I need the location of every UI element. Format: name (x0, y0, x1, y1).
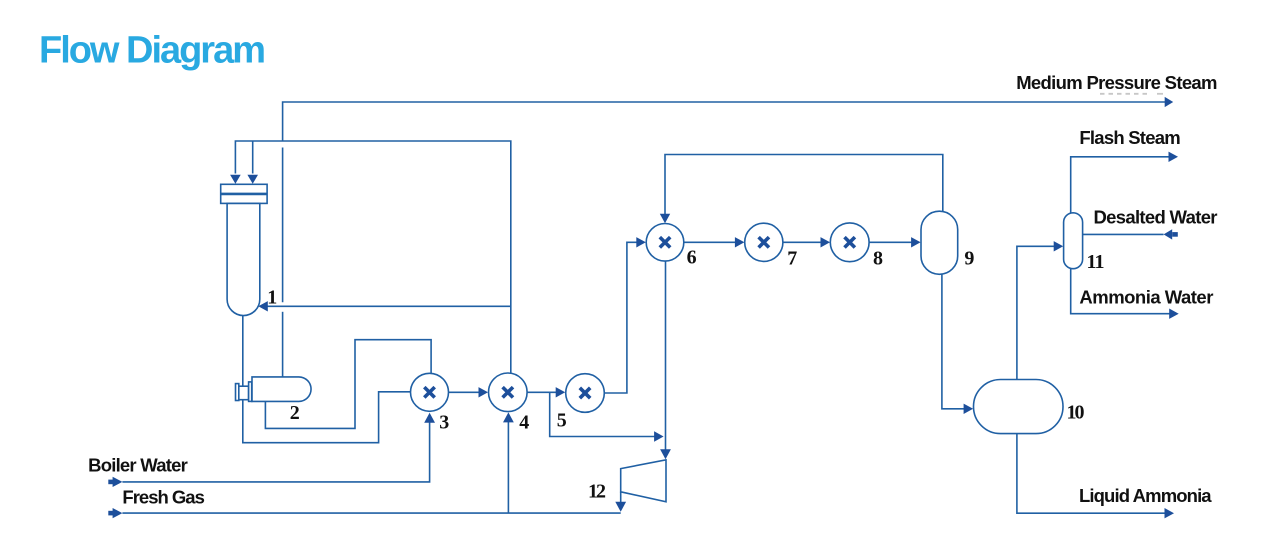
svg-text:2: 2 (290, 402, 300, 424)
arrowhead: into exchanger 5 left (556, 387, 566, 397)
exchanger E4 cross (503, 387, 513, 397)
arrowhead stub: fresh gas source (108, 511, 113, 516)
svg-text:3: 3 (439, 412, 449, 434)
svg-text:6: 6 (687, 247, 697, 269)
svg-text:11: 11 (1087, 251, 1105, 273)
wire: exchanger 6 bottom down to compressor 12 (665, 261, 667, 456)
svg-text:Medium Pressure Steam: Medium Pressure Steam (1016, 72, 1217, 93)
exchanger E3 cross (424, 387, 434, 397)
exchanger E5 cross (580, 388, 590, 398)
wire: vessel 11 bottom to ammonia water outlet (1071, 269, 1175, 314)
arrowhead: drop 1 into vessel 1 cap (230, 175, 241, 184)
arrowhead: drop 2 into vessel 1 cap (247, 175, 258, 184)
wire: vessel 10 top to vessel 11 left (1017, 246, 1060, 379)
vessel V2 nozzle flange (236, 384, 239, 401)
wire: exchanger 6 to exchanger 7 (684, 241, 741, 243)
svg-text:Desalted Water: Desalted Water (1094, 206, 1218, 227)
svg-text:8: 8 (873, 247, 883, 269)
svg-text:Flash Steam: Flash Steam (1079, 127, 1180, 148)
arrowhead: down into compressor 12 top (660, 449, 671, 459)
wire: boiler water line to exchanger 3 bottom (122, 417, 429, 482)
svg-text:12: 12 (588, 481, 606, 503)
svg-text:1: 1 (267, 287, 277, 309)
svg-text:10: 10 (1067, 401, 1085, 423)
arrowhead: boiler water into exchanger 3 bottom (424, 413, 435, 423)
vessel V1 cap divider (221, 193, 267, 196)
svg-text:4: 4 (519, 411, 529, 433)
svg-text:Fresh Gas: Fresh Gas (122, 487, 204, 508)
wire: exchanger 5 to exchanger 6 (604, 242, 642, 393)
arrowhead: flash steam outlet (1169, 152, 1179, 162)
wire: exchanger 4 to exchanger 5 (527, 391, 562, 393)
vessel V2 nozzle bar (249, 382, 252, 402)
arrowhead: ammonia water outlet (1169, 309, 1179, 319)
vessel V10 (974, 380, 1064, 434)
arrowhead: into exchanger 4 left (479, 387, 489, 397)
wire: vessel 9 top recycle to exchanger 6 top (665, 155, 943, 220)
wire: second drop into vessel 1 cap (252, 141, 254, 174)
svg-text:9: 9 (964, 247, 974, 269)
svg-text:Liquid Ammonia: Liquid Ammonia (1079, 485, 1212, 506)
wire: compressor outlet down to fresh gas line (620, 492, 622, 508)
arrowhead: into vessel 1 right side (258, 301, 268, 311)
wire: desalted water inlet line (1083, 233, 1164, 235)
wire: steam drum to medium pressure steam header (282, 312, 284, 377)
svg-text:Ammonia Water: Ammonia Water (1079, 287, 1213, 308)
arrowhead: recycle into exchanger 6 top (660, 214, 670, 224)
arrowhead: into vessel 11 left (1054, 241, 1064, 251)
arrowhead: desalted water inlet (points left) (1164, 229, 1173, 239)
exchanger E6 cross (660, 237, 670, 247)
arrowhead: fresh gas source (113, 508, 123, 518)
arrowhead: fresh gas into exchanger 4 bottom (503, 412, 514, 422)
vessel V1 cap (221, 184, 267, 203)
arrowhead: into exchanger 6 left (636, 237, 646, 247)
wire: fresh gas branch up into exchanger 4 bottom (507, 417, 509, 513)
wire: vessel 10 bottom to liquid ammonia outlet (1017, 434, 1170, 514)
wire: top header y141 with two drops into vessel 1 cap (235, 141, 510, 373)
wire: exchanger 8 to vessel 9 (869, 241, 916, 243)
svg-text:Boiler Water: Boiler Water (88, 454, 188, 475)
exchanger E3 circle (411, 373, 449, 411)
arrowhead: into exchanger 8 left (821, 237, 831, 247)
vessel V9 (921, 211, 958, 274)
arrowhead: into exchanger 7 left (735, 237, 745, 247)
arrowhead: compressor outlet into fresh gas line (615, 502, 626, 512)
exchanger E7 circle (745, 223, 783, 261)
exchanger E8 circle (830, 223, 869, 262)
wire: vessel 11 top to flash steam outlet (1071, 157, 1174, 213)
wire: branch down to compressor feed line (550, 392, 660, 436)
arrowhead stub: boiler water source (108, 480, 113, 485)
exchanger E5 circle (566, 374, 605, 413)
svg-text:5: 5 (557, 410, 567, 432)
svg-text:Flow Diagram: Flow Diagram (39, 30, 266, 72)
arrowhead: into vessel 10 left (964, 404, 974, 414)
wire: vessel 1 bottom to exchanger 3 left (243, 313, 411, 443)
vessel V2 body (252, 377, 311, 402)
exchanger E6 circle (646, 224, 684, 262)
vessel V2 nozzle pipe (239, 386, 249, 400)
exchanger E4 circle (489, 373, 528, 412)
wire: exchanger 7 to exchanger 8 (783, 241, 826, 243)
decorative ghost marks (left unlabeled intentionally) (1100, 93, 1151, 95)
exchanger E7 cross (759, 237, 769, 247)
wire: vessel 2 bottom to exchanger 3 top (265, 340, 431, 429)
svg-text:7: 7 (787, 248, 797, 270)
compressor K12 (621, 460, 666, 502)
wire: fresh gas line (122, 512, 620, 514)
vessel V11 (1064, 213, 1083, 269)
exchanger E8 cross (845, 237, 855, 247)
arrowhead: liquid ammonia outlet (1165, 508, 1175, 518)
arrowhead stub: desalted water inlet (1172, 232, 1178, 237)
wire: branch into vessel 1 right side (262, 305, 511, 307)
arrowhead: medium pressure steam outlet (1165, 97, 1174, 107)
wire: exchanger 3 to exchanger 4 (448, 391, 484, 393)
arrowhead: branch into compressor downline (654, 431, 664, 441)
arrowhead: into vessel 9 left (911, 237, 921, 247)
arrowhead: boiler water source (113, 477, 123, 487)
vessel V1 body (227, 203, 260, 315)
wire: vessel 9 bottom to vessel 10 left (942, 274, 969, 409)
